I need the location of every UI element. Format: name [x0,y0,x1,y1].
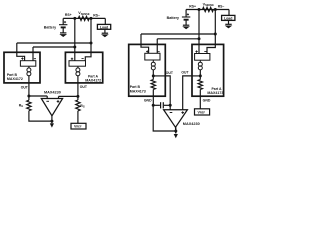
svg-text:RS+: RS+ [65,13,72,17]
svg-text:MAX4173: MAX4173 [207,91,223,95]
svg-text:GND: GND [144,98,152,102]
svg-text:RS+: RS+ [189,4,196,8]
svg-text:VSENSE: VSENSE [78,11,90,16]
svg-text:OUT: OUT [80,85,88,89]
svg-text:RS–: RS– [93,13,100,17]
svg-text:Battery: Battery [44,26,56,30]
svg-text:RS–: RS– [218,5,225,9]
svg-text:Part B: Part B [130,85,141,89]
svg-text:MAX4172: MAX4172 [7,77,23,81]
svg-text:MAX4172: MAX4172 [85,78,101,82]
svg-text:GND: GND [203,98,211,102]
svg-text:OUT: OUT [21,85,29,89]
svg-text:Load: Load [100,25,108,29]
svg-text:VSENSE: VSENSE [203,2,215,7]
svg-text:Battery: Battery [167,16,179,20]
svg-text:OUT: OUT [181,71,189,75]
svg-text:MAX4230: MAX4230 [183,122,200,126]
svg-text:VREF: VREF [74,124,82,128]
svg-text:OUT: OUT [166,71,174,75]
svg-text:RG: RG [19,104,24,109]
svg-text:Load: Load [224,16,232,20]
svg-text:MAX4173: MAX4173 [130,89,146,93]
svg-text:MAX4230: MAX4230 [44,90,61,94]
svg-text:RG: RG [80,104,85,109]
svg-text:VREF: VREF [198,110,206,114]
